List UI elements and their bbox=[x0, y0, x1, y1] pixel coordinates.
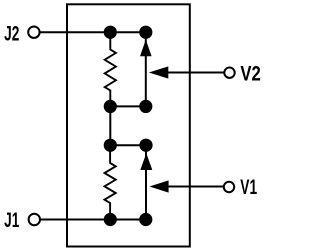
junction node P2B (resistor bottom) bbox=[104, 100, 117, 113]
junction node P1 wiper top bbox=[139, 139, 152, 152]
wire V2 bbox=[167, 72, 224, 74]
wiper line P2 bbox=[145, 32, 147, 106]
wire J1 to node P1B bbox=[40, 219, 146, 221]
wiper line P1 bbox=[145, 145, 147, 219]
junction node P1B (resistor bottom) bbox=[104, 213, 117, 226]
terminal V2 bbox=[224, 68, 234, 78]
wire link P2B to P1A bbox=[109, 106, 111, 145]
wiper arrowhead P2 (up) bbox=[140, 40, 152, 56]
wiper arrowhead P1 (up) bbox=[140, 153, 152, 170]
svg-text:J2: J2 bbox=[4, 22, 19, 45]
IC outline box bbox=[67, 4, 190, 246]
terminal J1 bbox=[29, 214, 40, 225]
wire J2 to node P2A bbox=[39, 31, 145, 33]
arrowhead V2 (left) bbox=[149, 66, 168, 78]
terminal V1 bbox=[224, 182, 234, 192]
junction node P2 wiper bottom bbox=[139, 100, 152, 113]
wire P2B to wiper bottom bbox=[110, 105, 146, 107]
arrowhead V1 (left) bbox=[149, 180, 168, 192]
resistor P2 element bbox=[105, 32, 116, 106]
junction node P2 wiper top bbox=[139, 26, 152, 39]
terminal J2 bbox=[28, 27, 39, 38]
wire P1A to wiper top bbox=[110, 144, 146, 146]
junction node P2A (resistor top) bbox=[104, 26, 117, 39]
junction node P1A (resistor top) bbox=[104, 139, 117, 152]
svg-text:V2: V2 bbox=[240, 63, 260, 86]
junction node P1 wiper bottom bbox=[139, 213, 152, 226]
resistor P1 element bbox=[105, 145, 116, 219]
svg-text:J1: J1 bbox=[4, 209, 19, 232]
wire V1 bbox=[168, 186, 224, 188]
svg-text:V1: V1 bbox=[240, 176, 257, 199]
